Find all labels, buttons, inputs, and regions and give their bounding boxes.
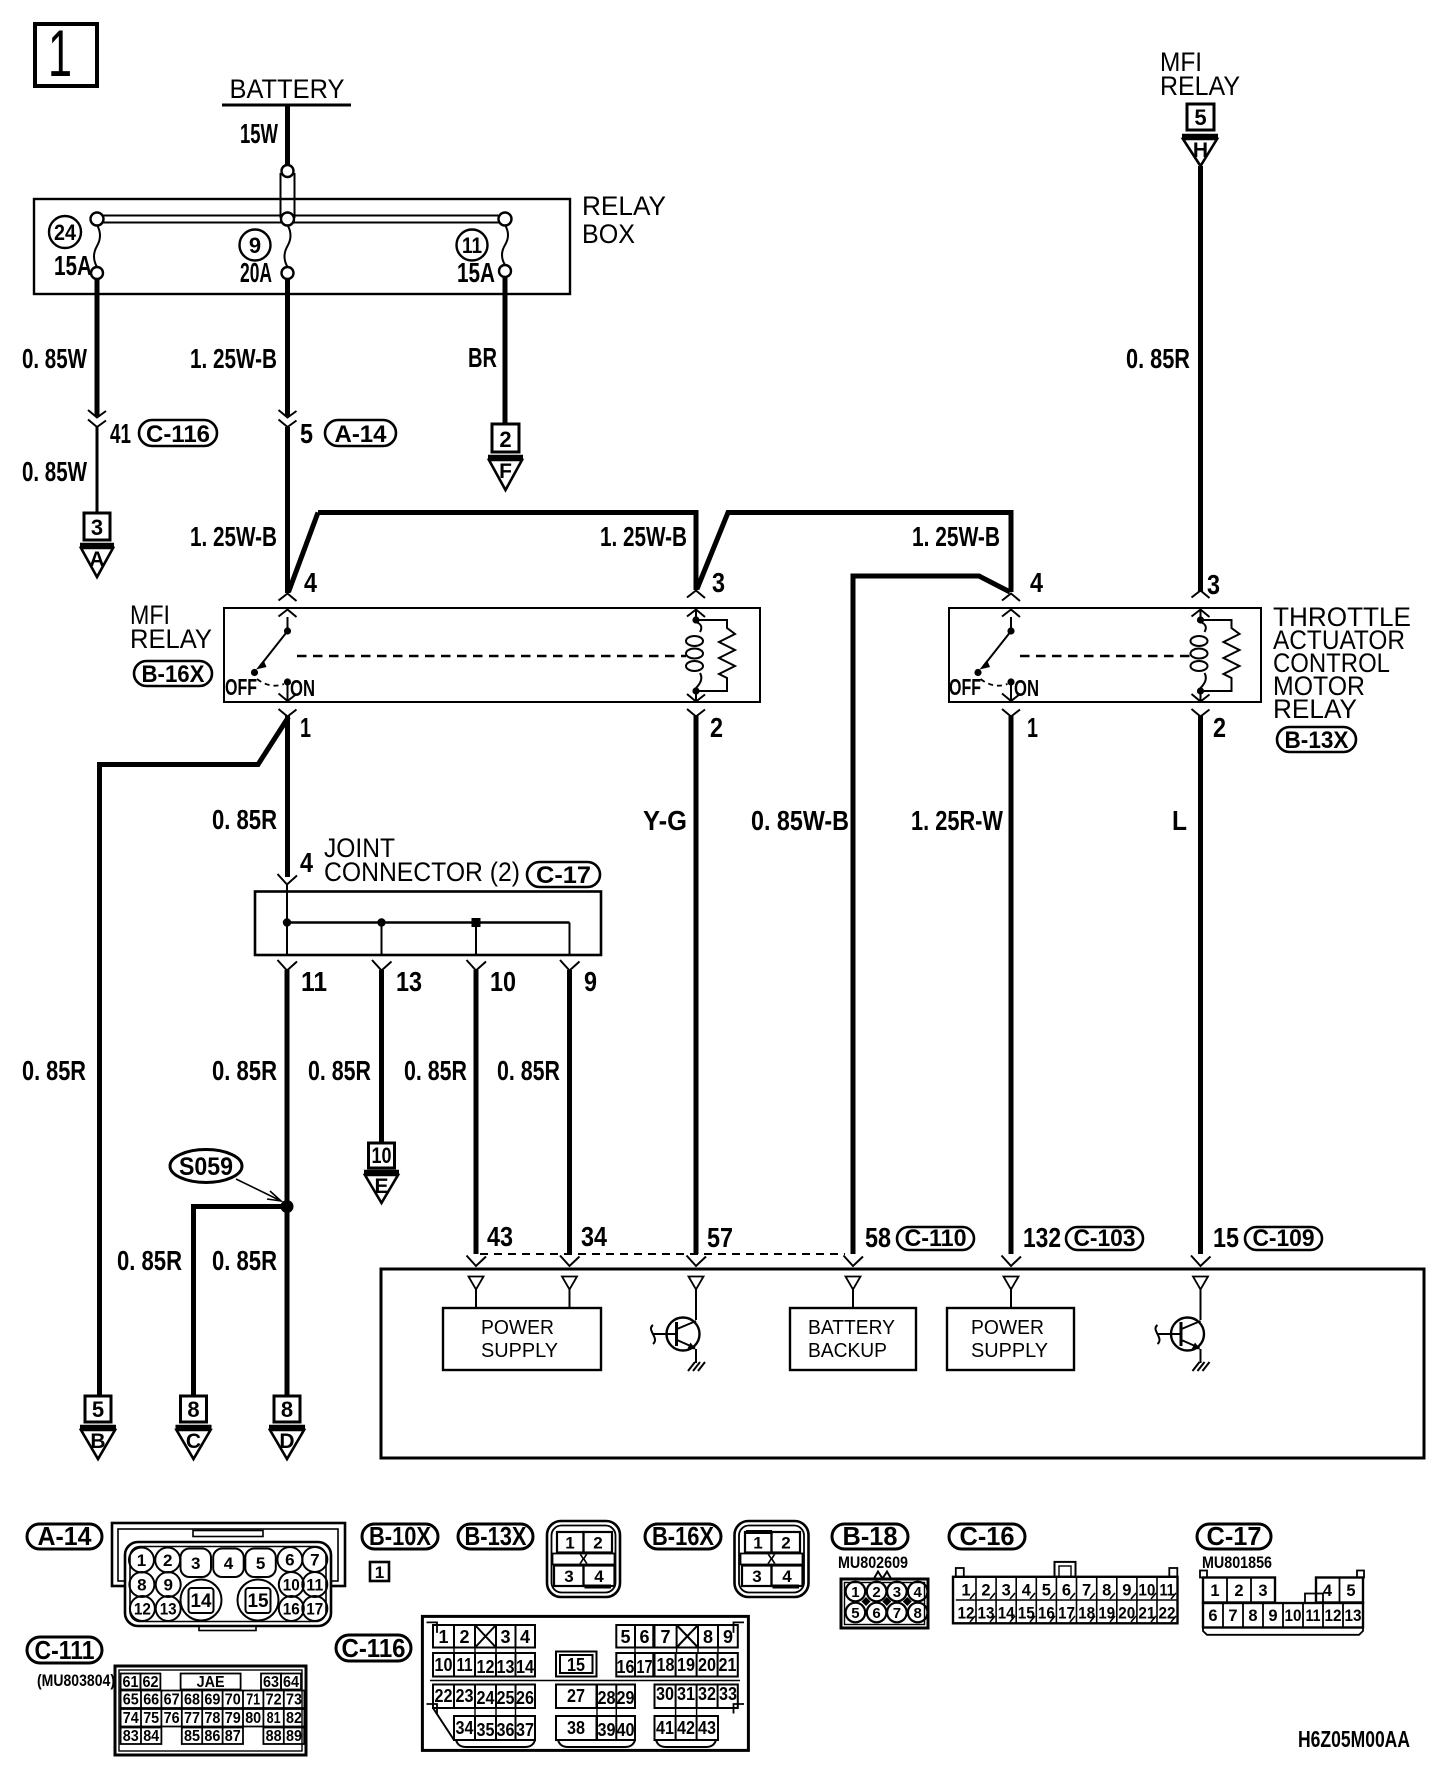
wire BR from fuse 11 [468, 277, 505, 424]
svg-text:11: 11 [1160, 1582, 1175, 1600]
connector B-16X label [645, 1521, 721, 1551]
svg-text:29: 29 [617, 1688, 635, 1708]
resistor MFI relay [696, 620, 735, 691]
fuse 9 20A [240, 225, 294, 288]
svg-text:11: 11 [306, 1576, 323, 1595]
svg-text:2: 2 [499, 427, 511, 452]
svg-text:1. 25W-B: 1. 25W-B [190, 521, 277, 552]
svg-text:68: 68 [184, 1692, 200, 1709]
svg-text:OFF: OFF [949, 674, 981, 700]
ECM box [381, 1269, 1424, 1458]
svg-text:A: A [89, 548, 104, 571]
svg-text:8: 8 [703, 1627, 713, 1647]
svg-text:16: 16 [1038, 1605, 1055, 1623]
svg-text:BR: BR [468, 342, 497, 373]
svg-text:84: 84 [143, 1728, 159, 1745]
svg-text:18: 18 [657, 1655, 675, 1675]
joint connector pin 11 [278, 923, 328, 998]
svg-text:9: 9 [249, 233, 261, 258]
svg-text:4: 4 [520, 1627, 530, 1647]
svg-text:4: 4 [304, 567, 317, 598]
ECM input dashed line [480, 1253, 845, 1255]
svg-text:12: 12 [477, 1657, 495, 1677]
svg-text:JAE: JAE [197, 1674, 225, 1691]
svg-text:24: 24 [477, 1688, 495, 1708]
svg-text:78: 78 [204, 1710, 220, 1727]
svg-text:85: 85 [184, 1728, 200, 1745]
svg-text:43: 43 [698, 1718, 716, 1738]
svg-text:CONNECTOR (2): CONNECTOR (2) [324, 857, 520, 887]
fuse 24 15A [49, 216, 103, 281]
svg-text:5: 5 [851, 1605, 859, 1622]
connector box 5 with triangle H top right [1182, 104, 1218, 166]
svg-text:89: 89 [286, 1728, 302, 1745]
svg-text:35: 35 [477, 1720, 495, 1740]
wire 0.85R branch left to triangle B [22, 717, 289, 1396]
connector C-116 pinout drawing [422, 1616, 748, 1750]
svg-text:3: 3 [1207, 569, 1220, 600]
connector B-10X label [362, 1521, 438, 1551]
node S059 [170, 1150, 294, 1214]
connector box 8 with triangle D [269, 1396, 305, 1459]
svg-text:7: 7 [1228, 1607, 1237, 1625]
svg-text:SUPPLY: SUPPLY [481, 1340, 558, 1362]
power supply box 2 [947, 1290, 1074, 1371]
svg-text:D: D [279, 1430, 294, 1453]
svg-text:28: 28 [598, 1688, 616, 1708]
svg-text:Y-G: Y-G [643, 805, 687, 836]
svg-text:9: 9 [723, 1627, 733, 1647]
connector box 2 with triangle F [488, 424, 523, 490]
svg-text:12: 12 [1325, 1607, 1342, 1625]
svg-text:1: 1 [137, 1551, 146, 1570]
wire 15W battery feed [240, 106, 288, 166]
svg-text:1: 1 [851, 1584, 859, 1601]
svg-text:24: 24 [54, 220, 77, 245]
svg-text:22: 22 [435, 1686, 453, 1706]
svg-text:BATTERY: BATTERY [230, 74, 345, 104]
svg-text:RELAY: RELAY [1160, 71, 1240, 101]
svg-text:20A: 20A [240, 257, 272, 288]
ECM pin labels row [487, 1221, 1322, 1253]
relay U1 MFI relay box [224, 608, 760, 702]
svg-text:0. 85W-B: 0. 85W-B [751, 805, 849, 836]
svg-text:42: 42 [677, 1718, 695, 1738]
svg-text:3: 3 [564, 1567, 573, 1586]
wire 1.25R-W from relay U2 pin 1 to ECM 132 [911, 716, 1011, 1254]
svg-text:11: 11 [1306, 1607, 1321, 1625]
svg-text:RELAY: RELAY [582, 191, 666, 221]
svg-text:6: 6 [872, 1605, 880, 1622]
wire 1.25W-B horizontal run 2 from MFI pin 3 to relay 2 pin 4 [697, 513, 1011, 593]
svg-text:87: 87 [225, 1728, 241, 1745]
dashed actuation line MFI relay [297, 655, 686, 657]
svg-text:8: 8 [1248, 1607, 1257, 1625]
svg-text:5: 5 [620, 1627, 630, 1647]
pin 4 MFI relay [279, 567, 318, 617]
svg-text:12: 12 [958, 1605, 975, 1623]
svg-text:88: 88 [266, 1728, 282, 1745]
svg-text:30: 30 [656, 1684, 674, 1704]
MFI RELAY label top right [1160, 47, 1240, 101]
svg-text:62: 62 [143, 1674, 159, 1691]
svg-text:5: 5 [300, 418, 313, 449]
connector C-17 pinout drawing [1200, 1571, 1364, 1635]
svg-text:13: 13 [396, 966, 422, 997]
inline connector 5 A-14 [279, 410, 397, 449]
svg-text:B-16X: B-16X [142, 661, 205, 688]
wire 0.85R from MFI relay H to relay 2 pin 3 [1126, 166, 1201, 592]
svg-text:16: 16 [283, 1600, 300, 1619]
svg-text:14: 14 [998, 1605, 1016, 1623]
svg-text:4: 4 [594, 1567, 604, 1586]
svg-text:14: 14 [191, 1591, 212, 1612]
svg-text:H: H [1193, 139, 1208, 162]
svg-text:C-110: C-110 [905, 1225, 967, 1252]
svg-text:MU801856: MU801856 [1202, 1553, 1272, 1572]
svg-text:5: 5 [92, 1397, 104, 1422]
svg-text:3: 3 [752, 1567, 761, 1586]
svg-text:32: 32 [698, 1684, 716, 1704]
battery connector into relay box [281, 165, 295, 218]
svg-text:13: 13 [978, 1605, 995, 1623]
svg-text:2: 2 [781, 1534, 790, 1553]
wire 0.85W lower to connector 3/A [22, 427, 97, 513]
page number box 1 [35, 16, 97, 90]
BATTERY label [222, 74, 351, 105]
svg-text:41: 41 [656, 1718, 674, 1738]
svg-text:B-18: B-18 [843, 1521, 898, 1551]
svg-text:3: 3 [712, 567, 725, 598]
svg-text:0. 85R: 0. 85R [497, 1055, 560, 1086]
svg-text:4: 4 [224, 1554, 234, 1573]
svg-text:33: 33 [719, 1684, 737, 1704]
svg-text:ON: ON [1014, 675, 1039, 701]
svg-text:82: 82 [286, 1710, 302, 1727]
svg-text:81: 81 [267, 1710, 281, 1727]
ground Q1 [688, 1362, 705, 1371]
pin 2 relay U2 [1192, 691, 1227, 743]
pin 3 MFI relay [687, 567, 725, 619]
svg-text:C-16: C-16 [960, 1521, 1015, 1551]
svg-text:43: 43 [487, 1221, 513, 1252]
svg-text:34: 34 [456, 1718, 474, 1738]
svg-text:BACKUP: BACKUP [808, 1340, 887, 1362]
svg-text:3: 3 [1258, 1582, 1267, 1600]
svg-text:4: 4 [1022, 1582, 1032, 1600]
svg-text:5: 5 [256, 1554, 265, 1573]
svg-text:6: 6 [285, 1551, 294, 1570]
svg-text:10: 10 [435, 1655, 453, 1675]
svg-text:0. 85R: 0. 85R [212, 804, 277, 835]
svg-text:20: 20 [698, 1655, 716, 1675]
svg-text:76: 76 [164, 1710, 180, 1727]
svg-text:POWER: POWER [481, 1317, 554, 1339]
joint connector label C-17 [300, 833, 600, 889]
svg-text:A-14: A-14 [335, 421, 388, 448]
switch MFI relay [225, 617, 315, 701]
transistor Q2 [1155, 1290, 1204, 1364]
connector box 5 with triangle B [80, 1396, 116, 1459]
joint connector (2) box [255, 892, 601, 956]
svg-text:86: 86 [204, 1728, 220, 1745]
svg-text:21: 21 [1138, 1605, 1155, 1623]
svg-text:15: 15 [248, 1591, 269, 1612]
svg-text:2: 2 [710, 712, 723, 743]
svg-text:B-10X: B-10X [369, 1521, 432, 1551]
svg-text:21: 21 [719, 1655, 737, 1675]
svg-text:70: 70 [225, 1692, 241, 1709]
svg-text:31: 31 [677, 1684, 695, 1704]
svg-text:41: 41 [110, 418, 131, 449]
svg-text:74: 74 [123, 1710, 139, 1727]
connector C-17 label [1197, 1521, 1272, 1572]
svg-text:0. 85R: 0. 85R [212, 1055, 277, 1086]
connector C-116 label [336, 1633, 411, 1663]
wire 0.85W from fuse 24 [22, 279, 97, 416]
svg-text:L: L [1172, 805, 1187, 836]
connector C-111 label [27, 1635, 115, 1690]
svg-text:5: 5 [1194, 105, 1206, 130]
svg-text:1: 1 [300, 712, 311, 743]
connector A-14 label [27, 1521, 102, 1551]
connector A-14 pinout drawing [112, 1523, 345, 1631]
pin 1 MFI relay [279, 694, 312, 744]
wire L from relay U2 pin 2 to ECM 15 [1172, 716, 1201, 1254]
svg-text:1: 1 [375, 1563, 384, 1582]
svg-text:79: 79 [225, 1710, 241, 1727]
svg-text:0. 85R: 0. 85R [1126, 343, 1190, 374]
svg-text:B-13X: B-13X [465, 1521, 528, 1551]
svg-text:61: 61 [123, 1674, 139, 1691]
svg-text:11: 11 [457, 1655, 473, 1675]
svg-text:3: 3 [893, 1584, 901, 1601]
svg-text:2: 2 [1234, 1582, 1243, 1600]
svg-text:80: 80 [245, 1710, 261, 1727]
resistor relay U2 [1201, 620, 1240, 691]
svg-text:3: 3 [1002, 1582, 1011, 1600]
svg-text:72: 72 [266, 1692, 282, 1709]
svg-text:8: 8 [137, 1576, 146, 1595]
svg-text:RELAY: RELAY [130, 624, 212, 654]
svg-text:20: 20 [1118, 1605, 1135, 1623]
svg-text:8: 8 [914, 1605, 922, 1622]
inline connector 41 C-116 [88, 410, 217, 449]
svg-text:0. 85R: 0. 85R [117, 1245, 182, 1276]
svg-text:1: 1 [48, 16, 72, 90]
pin 4 joint connector entry [278, 874, 298, 922]
wire 1.25W-B horizontal run 1 to MFI relay pin 3 [318, 513, 696, 591]
svg-text:23: 23 [456, 1686, 474, 1706]
svg-text:9: 9 [1122, 1582, 1131, 1600]
connector C-111 pinout drawing [115, 1666, 306, 1755]
svg-text:8: 8 [281, 1397, 293, 1422]
svg-text:(MU803804): (MU803804) [37, 1671, 115, 1690]
svg-text:C-103: C-103 [1074, 1225, 1136, 1252]
svg-text:1. 25R-W: 1. 25R-W [911, 805, 1003, 836]
svg-text:15A: 15A [54, 250, 92, 281]
svg-text:77: 77 [184, 1710, 200, 1727]
part number H6Z05M00AA [1298, 1726, 1410, 1752]
svg-text:66: 66 [143, 1692, 159, 1709]
svg-text:1: 1 [438, 1627, 448, 1647]
svg-text:27: 27 [567, 1686, 585, 1706]
svg-text:X: X [579, 1552, 588, 1567]
svg-text:H6Z05M00AA: H6Z05M00AA [1298, 1726, 1410, 1752]
wire 1.25W-B riser diagonal to horizontal run 1 [289, 513, 319, 593]
joint connector internal bus [283, 918, 570, 927]
wire 0.85R pin 9 down to ECM 34 [497, 970, 570, 1254]
svg-text:63: 63 [263, 1674, 279, 1691]
svg-text:E: E [374, 1175, 388, 1198]
svg-text:75: 75 [143, 1710, 159, 1727]
wire 0.85R pin 13 down to triangle E [308, 970, 382, 1143]
throttle actuator control motor relay label B-13X [1273, 602, 1411, 754]
wire Y-G from MFI pin 2 to ECM 57 [643, 716, 696, 1254]
svg-text:73: 73 [286, 1692, 302, 1709]
svg-text:6: 6 [639, 1627, 649, 1647]
svg-text:22: 22 [1159, 1605, 1176, 1623]
svg-text:10: 10 [283, 1576, 300, 1595]
svg-text:15A: 15A [457, 257, 495, 288]
connector B-18 label [832, 1521, 908, 1572]
bus bar [91, 213, 512, 226]
svg-text:B-16X: B-16X [652, 1521, 715, 1551]
svg-text:13: 13 [497, 1657, 515, 1677]
svg-text:13: 13 [160, 1600, 177, 1619]
wire 0.85R pin 10 down to ECM 43 [404, 970, 476, 1254]
svg-text:0. 85W: 0. 85W [22, 456, 87, 487]
svg-text:6: 6 [1208, 1607, 1217, 1625]
svg-text:5: 5 [1346, 1582, 1355, 1600]
svg-text:B-13X: B-13X [1285, 727, 1349, 754]
svg-text:69: 69 [204, 1692, 220, 1709]
svg-text:15: 15 [567, 1655, 585, 1675]
svg-text:8: 8 [187, 1397, 199, 1422]
svg-text:9: 9 [163, 1576, 172, 1595]
svg-text:18: 18 [1078, 1605, 1095, 1623]
svg-text:0. 85R: 0. 85R [308, 1055, 371, 1086]
svg-text:34: 34 [581, 1221, 607, 1252]
svg-text:RELAY: RELAY [1273, 694, 1357, 724]
svg-text:1: 1 [753, 1534, 762, 1553]
svg-text:37: 37 [516, 1720, 534, 1740]
svg-text:F: F [499, 460, 512, 483]
switch relay U2 [949, 617, 1039, 701]
svg-text:19: 19 [677, 1655, 695, 1675]
svg-text:17: 17 [1058, 1605, 1075, 1623]
connector B-13X label [458, 1521, 533, 1551]
svg-text:17: 17 [306, 1600, 323, 1619]
svg-text:10: 10 [1285, 1607, 1302, 1625]
svg-text:OFF: OFF [225, 674, 257, 700]
svg-text:C-17: C-17 [1207, 1521, 1262, 1551]
svg-text:15: 15 [1018, 1605, 1035, 1623]
svg-text:C-111: C-111 [35, 1635, 95, 1665]
connector box 10 with triangle E [364, 1143, 399, 1203]
svg-text:7: 7 [893, 1605, 901, 1622]
svg-text:67: 67 [164, 1692, 180, 1709]
svg-text:1. 25W-B: 1. 25W-B [600, 521, 687, 552]
svg-text:10: 10 [1138, 1582, 1155, 1600]
svg-text:7: 7 [310, 1551, 319, 1570]
svg-text:2: 2 [459, 1627, 469, 1647]
wire 0.85R from MFI pin 1 down [212, 716, 288, 877]
svg-text:MU802609: MU802609 [838, 1553, 908, 1572]
svg-text:8: 8 [1102, 1582, 1111, 1600]
wire 1.25W-B from fuse 9 down to MFI relay pin 4 [190, 279, 288, 416]
svg-text:C: C [186, 1430, 201, 1453]
connector box 3 with triangle A [80, 513, 114, 577]
svg-text:C-116: C-116 [146, 421, 210, 448]
svg-text:1. 25W-B: 1. 25W-B [190, 343, 277, 374]
svg-text:2: 2 [981, 1582, 990, 1600]
svg-text:0. 85R: 0. 85R [22, 1055, 86, 1086]
svg-text:1: 1 [565, 1534, 574, 1553]
RELAY BOX [34, 191, 666, 294]
svg-text:2: 2 [1213, 712, 1226, 743]
svg-text:3: 3 [191, 1554, 200, 1573]
svg-text:57: 57 [707, 1222, 733, 1253]
svg-text:26: 26 [516, 1688, 534, 1708]
ECM pin triangles [469, 1277, 1209, 1290]
svg-text:1: 1 [1210, 1582, 1219, 1600]
pin 2 MFI relay [687, 691, 723, 743]
svg-text:17: 17 [637, 1657, 653, 1677]
pin 3 relay U2 [1192, 569, 1221, 619]
connector B-16X pinout drawing [735, 1521, 809, 1597]
connector C-16 pinout drawing [953, 1562, 1178, 1623]
svg-text:15W: 15W [240, 118, 278, 149]
svg-text:9: 9 [584, 966, 597, 997]
fuse 11 15A [457, 225, 512, 288]
svg-text:4: 4 [782, 1567, 792, 1586]
coil MFI relay [686, 616, 703, 694]
transistor Q1 [651, 1290, 700, 1364]
dashed actuation line relay U2 [1020, 655, 1191, 657]
svg-text:11: 11 [462, 233, 482, 258]
svg-text:10: 10 [490, 966, 516, 997]
coil relay U2 [1191, 616, 1208, 694]
svg-text:2: 2 [872, 1584, 880, 1601]
connector box 8 with triangle C [176, 1396, 212, 1459]
connector B-13X pinout drawing [547, 1521, 620, 1597]
svg-text:10: 10 [372, 1143, 392, 1168]
svg-text:11: 11 [301, 966, 327, 997]
svg-text:3: 3 [91, 515, 103, 540]
svg-text:12: 12 [134, 1600, 151, 1619]
pin 1 relay U2 [1002, 694, 1038, 744]
connector B-10X pinout box 1 [370, 1562, 389, 1582]
svg-text:39: 39 [598, 1720, 616, 1740]
joint connector pin 9 [560, 923, 597, 998]
svg-text:C-109: C-109 [1253, 1225, 1315, 1252]
svg-text:1. 25W-B: 1. 25W-B [912, 521, 1000, 552]
svg-text:36: 36 [497, 1720, 515, 1740]
connector B-18 pinout drawing [841, 1572, 928, 1629]
power supply box 1 [443, 1290, 601, 1371]
svg-text:40: 40 [617, 1720, 635, 1740]
ECM pin forks [467, 1256, 1211, 1267]
svg-text:9: 9 [1268, 1607, 1277, 1625]
svg-text:64: 64 [283, 1674, 299, 1691]
joint connector pin 10 [467, 923, 517, 998]
svg-text:0. 85W: 0. 85W [22, 343, 87, 374]
svg-text:POWER: POWER [971, 1317, 1044, 1339]
svg-text:65: 65 [123, 1692, 139, 1709]
svg-text:132: 132 [1023, 1222, 1061, 1253]
svg-text:B: B [90, 1430, 105, 1453]
